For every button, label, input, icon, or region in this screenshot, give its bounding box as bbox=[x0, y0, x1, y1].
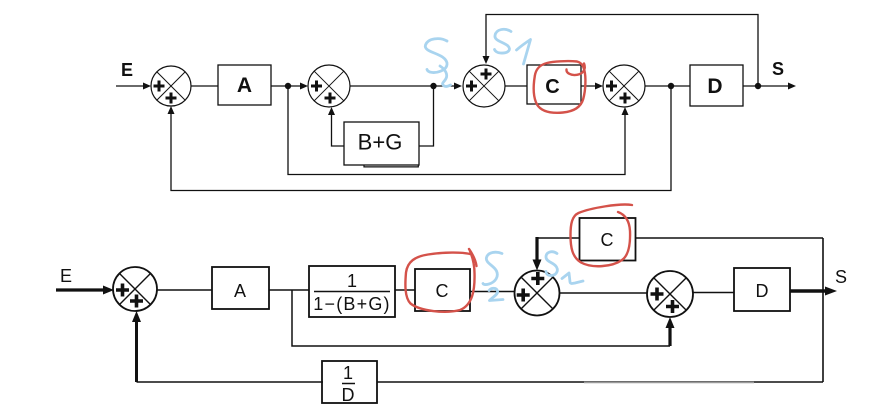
block D2 bbox=[734, 268, 790, 311]
feedback wire output to block 1/D bbox=[376, 381, 823, 383]
wire C2 to SJ6 bbox=[470, 291, 515, 293]
summing junction SJ3 bbox=[463, 65, 505, 107]
wire E to summing junction SJ1 bbox=[116, 83, 151, 90]
thick input arrow to SJ5 bbox=[56, 286, 114, 295]
svg-text:A: A bbox=[234, 281, 246, 301]
feedback wire output to block C3 bbox=[636, 237, 824, 239]
block A2 bbox=[212, 267, 269, 309]
node N3 bbox=[668, 83, 674, 89]
svg-text:A: A bbox=[237, 74, 252, 97]
svg-text:E: E bbox=[121, 60, 133, 80]
wire 1/D to SJ5 bottom bbox=[132, 311, 323, 382]
svg-text:D: D bbox=[756, 281, 769, 301]
summing junction SJ4 bbox=[603, 65, 645, 107]
blue handwriting S1 (right of SJ6) bbox=[546, 252, 583, 284]
feedback wire N3 to SJ1 bottom bbox=[168, 86, 672, 191]
block D bbox=[690, 65, 743, 106]
svg-text:C: C bbox=[601, 230, 614, 250]
block C bbox=[527, 65, 581, 104]
block B+G shadow bbox=[364, 165, 418, 167]
output label S (bottom) bbox=[835, 267, 847, 287]
svg-text:1−(B+G): 1−(B+G) bbox=[313, 294, 390, 314]
output label S bbox=[772, 59, 784, 79]
block 1/D bbox=[322, 361, 377, 405]
wire 1/(1-(B+G)) to block C2 bbox=[395, 289, 415, 291]
block C2 bbox=[415, 269, 470, 311]
node N4 bbox=[755, 83, 761, 89]
wire SJ5 to block A2 bbox=[157, 289, 212, 291]
svg-text:1: 1 bbox=[343, 363, 353, 383]
wire B+G to SJ2 bottom bbox=[328, 107, 344, 146]
red circle around block C2 bbox=[405, 249, 476, 312]
red circle around block C3 bbox=[571, 205, 633, 267]
svg-text:1: 1 bbox=[347, 271, 357, 291]
block C3 bbox=[580, 218, 636, 261]
summing junction SJ5 bbox=[113, 267, 157, 311]
svg-text:D: D bbox=[707, 75, 722, 98]
svg-text:D: D bbox=[342, 385, 355, 405]
feedback wire N4 to SJ3 top bbox=[483, 15, 759, 87]
wire SJ6 to SJ7 bbox=[559, 292, 647, 294]
wire A to SJ2 bbox=[271, 83, 308, 90]
summing junction SJ6 bbox=[515, 271, 560, 316]
wire SJ2 to SJ3 bbox=[350, 83, 462, 90]
blue handwriting S2 (left of SJ6) bbox=[483, 252, 503, 300]
blue handwriting S1 (top) bbox=[495, 29, 531, 64]
feedback pickoff vertical at output bbox=[822, 238, 824, 382]
svg-text:S: S bbox=[835, 267, 847, 287]
wire C to SJ4 bbox=[581, 83, 603, 90]
blue scribble S (left of SJ3) bbox=[425, 39, 450, 87]
wire C3 to SJ6 top bbox=[533, 237, 580, 271]
block B+G bbox=[344, 122, 419, 165]
svg-text:S: S bbox=[772, 59, 784, 79]
svg-text:B+G: B+G bbox=[358, 130, 403, 155]
node N2 bbox=[430, 83, 436, 89]
red circle around block C bbox=[534, 61, 586, 113]
pickoff wire after A2 to SJ7 bottom bbox=[292, 290, 675, 346]
svg-text:E: E bbox=[60, 266, 72, 286]
feedback wire N1 to SJ4 bottom bbox=[288, 86, 629, 175]
wire A2 to block 1/(1-(B+G)) bbox=[269, 289, 309, 291]
wire SJ1 to block A bbox=[191, 85, 218, 87]
thick output arrow S bbox=[790, 287, 837, 296]
svg-text:C: C bbox=[436, 281, 449, 301]
wire N2 down to block B+G bbox=[419, 86, 434, 146]
wire SJ4 to block D bbox=[645, 85, 690, 87]
gray segment of feedback wire bbox=[584, 382, 754, 384]
wire D to output S bbox=[743, 83, 796, 90]
block 1/(1-(B+G)) bbox=[309, 266, 395, 317]
svg-text:C: C bbox=[545, 76, 559, 98]
summing junction SJ1 bbox=[151, 66, 191, 106]
block A bbox=[218, 65, 271, 105]
input label E bbox=[121, 60, 133, 80]
wire SJ3 to block C bbox=[505, 85, 527, 87]
node N1 bbox=[285, 83, 291, 89]
wire SJ7 to block D2 bbox=[693, 292, 734, 294]
summing junction SJ7 bbox=[647, 271, 693, 317]
input label E (bottom) bbox=[60, 266, 72, 286]
summing junction SJ2 bbox=[308, 65, 350, 107]
